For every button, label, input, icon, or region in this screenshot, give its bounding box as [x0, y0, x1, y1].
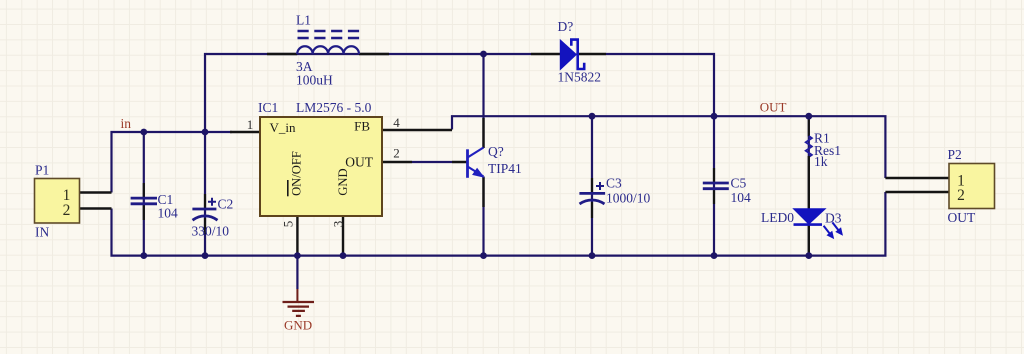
svg-text:GND: GND: [284, 318, 312, 333]
junction R1 / OUT bus: [805, 113, 812, 120]
svg-text:OUT: OUT: [760, 100, 787, 115]
svg-text:2: 2: [957, 187, 965, 204]
svg-text:ON/OFF: ON/OFF: [289, 151, 303, 196]
svg-text:V_in: V_in: [270, 120, 297, 135]
junction C2 top: [202, 129, 209, 136]
wire C2 branch: [204, 132, 206, 256]
diode D? 1N5822 (schottky): [531, 19, 606, 85]
svg-text:104: 104: [731, 190, 752, 205]
junction pin5 / gnd bus: [294, 252, 301, 259]
LED D3: [761, 156, 842, 256]
svg-text:FB: FB: [354, 119, 370, 134]
junction C1 top: [140, 129, 147, 136]
wire C5 branch: [713, 116, 715, 255]
svg-text:GND: GND: [336, 168, 350, 195]
svg-text:1N5822: 1N5822: [558, 70, 602, 85]
op-amp U1 : IC1 LM2576 body: [230, 100, 468, 227]
wire C1 branch: [143, 132, 145, 256]
wire IC gnd pins: [297, 216, 343, 256]
transistor Q? TIP41: [412, 118, 522, 207]
svg-text:TIP41: TIP41: [488, 161, 522, 176]
svg-text:OUT: OUT: [948, 210, 976, 225]
svg-text:L1: L1: [296, 13, 311, 28]
svg-text:D?: D?: [558, 19, 574, 34]
junction C2 bottom: [202, 252, 209, 259]
svg-text:4: 4: [393, 115, 400, 130]
wire top rail: [205, 54, 714, 132]
wire emitter branch: [482, 177, 484, 256]
svg-text:IC1: IC1: [258, 100, 278, 115]
wire OUT bus: [452, 116, 885, 178]
svg-text:D3: D3: [825, 211, 842, 226]
svg-text:OUT: OUT: [345, 155, 373, 170]
svg-text:5: 5: [281, 221, 296, 228]
junction C3 bottom: [589, 252, 596, 259]
svg-text:LM2576 - 5.0: LM2576 - 5.0: [296, 100, 372, 115]
capacitor C2 (polarized): [192, 194, 234, 239]
svg-text:104: 104: [158, 206, 179, 221]
svg-text:P2: P2: [948, 147, 962, 162]
junction LED bottom: [805, 252, 812, 259]
capacitor C3 (polarized): [579, 176, 650, 219]
connector P2: [885, 147, 994, 225]
svg-text:Q?: Q?: [488, 144, 504, 159]
svg-text:1000/10: 1000/10: [606, 191, 651, 206]
wire R1 LED branch: [808, 116, 810, 255]
wire collector branch: [482, 54, 484, 148]
svg-text:330/10: 330/10: [192, 224, 230, 239]
svg-text:P1: P1: [35, 163, 49, 178]
svg-text:IN: IN: [35, 225, 49, 240]
resistor R1: [806, 119, 841, 169]
wire bottom bus: [112, 192, 886, 256]
junction C5 bottom: [711, 252, 718, 259]
junction C1 bottom: [140, 252, 147, 259]
svg-text:1k: 1k: [814, 154, 828, 169]
svg-text:LED0: LED0: [761, 210, 794, 225]
ground GND power port: [283, 256, 315, 333]
junction collector / top rail: [480, 51, 487, 58]
svg-text:in: in: [121, 116, 132, 131]
svg-text:3: 3: [331, 221, 346, 228]
capacitor C1: [131, 183, 178, 221]
svg-text:C2: C2: [218, 197, 234, 212]
wire C3 branch: [591, 116, 593, 255]
inductor L1: [267, 13, 389, 88]
junction emitter / gnd bus: [480, 252, 487, 259]
junction C3 / OUT bus: [589, 113, 596, 120]
wire in rail: [112, 132, 233, 193]
junction C5 / OUT bus: [711, 113, 718, 120]
junction pin3 / gnd bus: [340, 252, 347, 259]
connector P1: [35, 163, 112, 240]
svg-text:100uH: 100uH: [296, 73, 333, 88]
svg-text:2: 2: [393, 146, 400, 161]
svg-text:1: 1: [247, 117, 254, 132]
svg-text:C5: C5: [731, 176, 747, 191]
svg-text:C3: C3: [606, 176, 622, 191]
svg-text:2: 2: [63, 202, 71, 219]
capacitor C5: [703, 168, 751, 205]
